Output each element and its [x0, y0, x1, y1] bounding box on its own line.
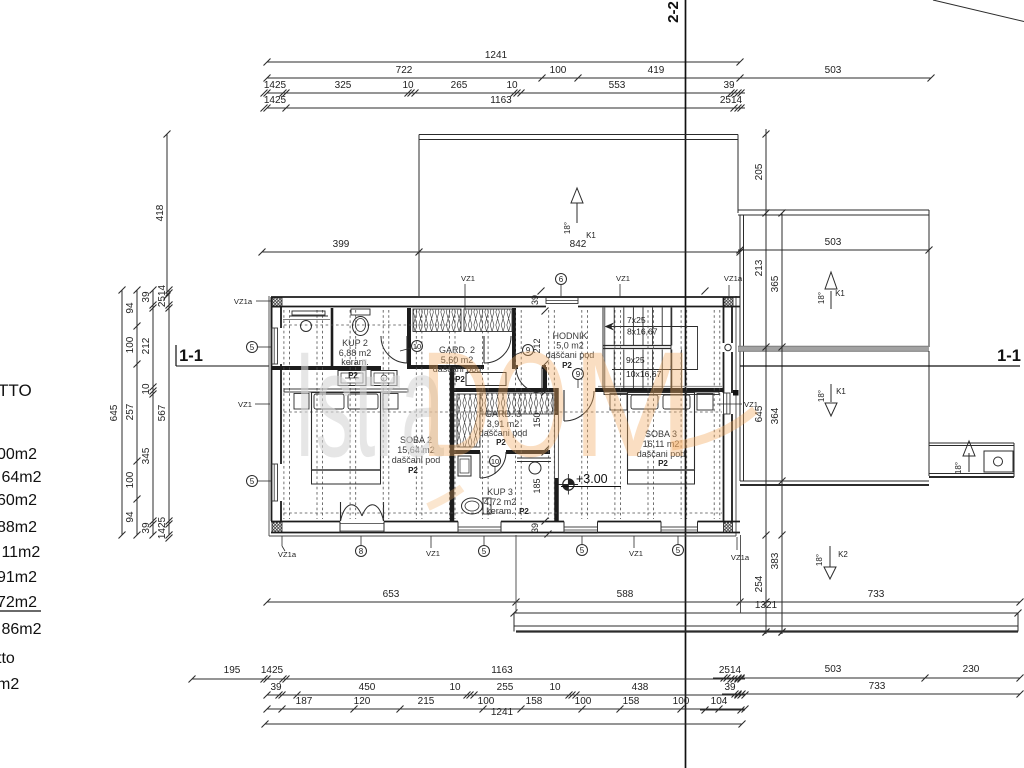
window jamb lines bottom wall	[339, 522, 341, 534]
soba2 nightstands	[294, 394, 309, 410]
canopy slope arrow 18 deg	[968, 453, 970, 472]
dimension line total 1241 (top)	[267, 61, 740, 63]
position bubble 5 left lower	[247, 476, 258, 487]
wall hodnik bottom + stub	[512, 365, 518, 369]
svg-text:10: 10	[402, 80, 414, 91]
dimension 399 / 842 under roof	[262, 251, 740, 253]
roof slope arrow K1 (upper roof)	[576, 203, 578, 223]
svg-text:18°: 18°	[815, 554, 824, 566]
stairs stringer	[602, 308, 604, 389]
diagonal roof line top right	[933, 0, 1024, 22]
svg-text:419: 419	[648, 65, 665, 76]
window bottom wall 1	[458, 527, 501, 533]
svg-text:VZ1a: VZ1a	[234, 297, 253, 306]
door pivot circle right wall	[725, 344, 731, 350]
svg-text:VZ1: VZ1	[461, 274, 475, 283]
svg-text:5: 5	[250, 477, 255, 486]
svg-text:10: 10	[506, 80, 518, 91]
svg-text:39: 39	[270, 682, 282, 693]
svg-text:P2: P2	[519, 507, 529, 516]
window left wall lower	[271, 464, 278, 501]
wall kup3 top	[454, 450, 480, 454]
dashed joist grid (vertical pairs)	[283, 310, 285, 519]
window right wall (VZ1)	[724, 393, 731, 414]
dimension line 722 / 100 / 419 / 503 (top)	[267, 77, 931, 79]
svg-text:60m2: 60m2	[0, 492, 37, 509]
gard2 dresser	[466, 373, 506, 386]
svg-text:M: M	[571, 320, 695, 488]
door hodnik to soba2 (tag 9)	[541, 368, 543, 393]
window left wall upper	[271, 328, 278, 364]
svg-text:2-2: 2-2	[665, 1, 682, 23]
svg-text:5: 5	[250, 343, 255, 352]
roof edge double vertical (right of plan)	[739, 215, 741, 481]
corner insulation hatch bottom-left	[272, 522, 282, 533]
soba3 bed body	[628, 393, 695, 471]
svg-text:230: 230	[963, 664, 980, 675]
svg-text:keram.: keram.	[486, 506, 514, 516]
soba3 nightstands	[610, 394, 627, 411]
svg-text:2514: 2514	[720, 95, 743, 106]
svg-text:,11m2: ,11m2	[0, 544, 40, 561]
sink unit in canopy	[984, 451, 1013, 472]
svg-text:383: 383	[770, 552, 781, 569]
svg-text:733: 733	[869, 681, 886, 692]
svg-text:503: 503	[825, 65, 842, 76]
wall kup2 bottom	[271, 366, 381, 370]
dimension line 39/733 (bottom right)	[722, 693, 1020, 695]
position bubble 9 gard2 door	[523, 345, 534, 356]
svg-text:100: 100	[575, 696, 592, 707]
extension line below plan (x=516)	[515, 535, 517, 613]
roof slope arrow K1 up (right upper)	[830, 291, 832, 309]
svg-text:O: O	[493, 320, 568, 488]
svg-text:10: 10	[141, 383, 152, 395]
wall kup2 inner partition	[331, 308, 334, 366]
wall gard2 bottom	[407, 365, 484, 369]
svg-text:6: 6	[559, 275, 564, 284]
dimension chain 645 (left)	[121, 290, 123, 535]
svg-text:215: 215	[418, 696, 435, 707]
svg-text:255: 255	[497, 682, 514, 693]
svg-text:5: 5	[676, 546, 681, 555]
wall ticks top near window	[538, 288, 545, 295]
position bubble 8 bottom (balcony door)	[356, 546, 367, 557]
roof slope arrow K1 down (right lower)	[830, 384, 832, 402]
svg-text:10: 10	[549, 682, 561, 693]
svg-text:503: 503	[825, 664, 842, 675]
stairs landing boundary	[670, 308, 672, 389]
svg-text:418: 418	[155, 204, 166, 221]
svg-text:438: 438	[632, 682, 649, 693]
svg-text:842: 842	[570, 239, 587, 250]
svg-text:m2: m2	[0, 676, 19, 693]
gard2 wardrobe hatch A	[413, 309, 461, 332]
svg-text:100: 100	[478, 696, 495, 707]
svg-text:205: 205	[754, 163, 765, 180]
stairs lower flight risers 9x25	[613, 350, 615, 389]
roof outline right lower rectangle	[928, 351, 930, 476]
position bubble 5 left upper	[247, 342, 258, 353]
svg-text:94: 94	[125, 302, 136, 314]
svg-text:100: 100	[125, 471, 136, 488]
stairs walk line with arrow	[607, 327, 698, 370]
svg-text:213: 213	[754, 259, 765, 276]
svg-text:39: 39	[530, 295, 540, 305]
dimension chain 39/212/10/345/39 (left)	[152, 290, 154, 535]
soba2 pillows	[314, 394, 344, 409]
canopy outline with sink (bottom right)	[929, 442, 1014, 444]
exterior wall right	[723, 297, 725, 343]
wall kup3/soba3 vertical	[554, 388, 559, 415]
svg-text:1241: 1241	[491, 707, 514, 718]
corner insulation hatch bottom-right	[724, 522, 733, 533]
position bubble 9 hodnik door	[573, 369, 584, 380]
underline under 72m2	[0, 610, 41, 612]
svg-text:1163: 1163	[491, 665, 513, 676]
kup2 counter and washbasin	[290, 315, 328, 317]
svg-text:2514: 2514	[157, 284, 168, 307]
kup2 toilet	[351, 309, 370, 315]
level mark +3.00	[563, 479, 574, 490]
svg-text:8: 8	[359, 547, 364, 556]
svg-text:257: 257	[125, 403, 136, 420]
svg-text:VZ1: VZ1	[629, 549, 643, 558]
svg-text:tto: tto	[0, 650, 15, 667]
svg-text:567: 567	[157, 404, 168, 421]
svg-text:KUP 3: KUP 3	[487, 487, 513, 497]
svg-text:195: 195	[224, 665, 241, 676]
stairs upper flight risers 7x25	[613, 308, 615, 346]
dimension chain right: 365/364/383	[781, 213, 783, 634]
svg-text:588: 588	[617, 589, 634, 600]
window VZ1 top wall (hodnik)	[546, 298, 578, 304]
svg-text:91m2: 91m2	[0, 569, 37, 586]
exterior wall bottom	[271, 532, 740, 534]
wall gard2/hodnik vertical	[512, 308, 516, 369]
svg-text:187: 187	[296, 696, 313, 707]
gard2 wardrobe hatch B	[464, 309, 512, 332]
svg-text:18°: 18°	[563, 222, 572, 234]
svg-text:K1: K1	[835, 289, 845, 298]
dashed lines horizontal	[284, 411, 722, 413]
dimension line 195/1425/1163/2514 (bottom)	[192, 678, 745, 680]
position bubble 5 bottom 1	[479, 546, 490, 557]
svg-text:365: 365	[770, 275, 781, 292]
svg-text:39: 39	[141, 522, 152, 534]
svg-text:VZ1a: VZ1a	[724, 274, 743, 283]
soba3 pillows	[631, 395, 658, 409]
roof outline right upper rectangle	[738, 209, 929, 211]
svg-text:,64m2: ,64m2	[0, 469, 42, 486]
svg-text:100: 100	[125, 336, 136, 353]
stairs railing between flights	[603, 345, 671, 347]
dimension line 1425 / 1163 / 2514 (top)	[267, 107, 745, 109]
svg-text:1425: 1425	[264, 95, 287, 106]
svg-text:K2: K2	[838, 550, 848, 559]
dimension line 187/120/215/100/158/100/158/100/104 (bottom)	[267, 708, 745, 710]
position bubble 5 bottom 3	[673, 545, 684, 556]
kup3 washbasin	[458, 456, 471, 476]
svg-text:5: 5	[580, 546, 585, 555]
svg-text:18°: 18°	[954, 462, 963, 474]
svg-text:325: 325	[335, 80, 352, 91]
svg-text:D: D	[421, 320, 491, 488]
svg-text:212: 212	[141, 337, 152, 354]
svg-text:104: 104	[711, 696, 728, 707]
door kup2 (tag 10)	[406, 336, 408, 363]
door gard2 (tag 9)	[483, 336, 485, 363]
section mark 1-1 left	[175, 345, 177, 366]
corner insulation hatch top-right	[724, 298, 734, 308]
svg-text:100: 100	[673, 696, 690, 707]
wall soba2 right vertical	[450, 366, 455, 521]
dimension line total 1241 (bottom)	[265, 723, 742, 725]
window bottom wall 3	[661, 527, 698, 533]
svg-text:653: 653	[383, 589, 400, 600]
extension line below plan (x=740)	[740, 535, 742, 613]
svg-text:94: 94	[125, 511, 136, 523]
svg-text:39: 39	[530, 523, 540, 533]
svg-text:VZ1: VZ1	[238, 400, 252, 409]
door soba3 (tag 5)	[563, 390, 565, 421]
wall section marker black square	[733, 390, 739, 396]
roof ridge grey band (right)	[738, 347, 929, 352]
exterior wall top	[271, 296, 740, 298]
svg-text:1425: 1425	[157, 516, 168, 539]
svg-text:158: 158	[526, 696, 543, 707]
dimension line 39/450/10/255/10/438/39 (bottom)	[267, 694, 745, 696]
wall gard3 top	[450, 388, 556, 392]
svg-text:503: 503	[825, 237, 842, 248]
soba2 bed body	[312, 393, 381, 471]
svg-text:K1: K1	[586, 231, 596, 240]
svg-text:1241: 1241	[485, 50, 508, 61]
gard3 wardrobe hatch left strip	[457, 394, 480, 447]
svg-text:18°: 18°	[817, 390, 826, 402]
dimension 418 (left upper)	[166, 134, 168, 296]
svg-text:265: 265	[451, 80, 468, 91]
svg-text:364: 364	[770, 407, 781, 424]
svg-text:39: 39	[724, 682, 736, 693]
svg-text:1425: 1425	[264, 80, 287, 91]
svg-text:1-1: 1-1	[179, 347, 203, 365]
svg-text:,86m2: ,86m2	[0, 621, 42, 638]
watermark IstraDOM	[294, 320, 695, 488]
soba3 bed headboard	[604, 392, 719, 395]
svg-text:72m2: 72m2	[0, 594, 37, 611]
watermark orange swoosh	[672, 410, 755, 446]
svg-text:VZ1a: VZ1a	[278, 550, 297, 559]
dimension line 1425/325/10/265/10/553/39 (top)	[267, 92, 745, 94]
roof outline upper rectangle	[419, 134, 738, 136]
dimension line 104 (bottom right)	[700, 709, 745, 711]
gard3 wardrobe hatch top block	[480, 393, 553, 414]
svg-text:39: 39	[723, 80, 735, 91]
svg-text:18°: 18°	[817, 292, 826, 304]
exterior wall left	[271, 297, 273, 521]
svg-text:K1: K1	[836, 387, 846, 396]
svg-text:645: 645	[109, 404, 120, 421]
svg-text:VZ1: VZ1	[616, 274, 630, 283]
svg-text:345: 345	[141, 447, 152, 464]
svg-text:1321: 1321	[755, 600, 778, 611]
balcony door double leaf (soba 2)	[340, 523, 384, 525]
dimension chain 94/100/257/100/94 (left)	[136, 290, 138, 535]
wall kup2/gard2 vertical	[407, 308, 411, 369]
section mark 1-1 right and section trace	[740, 365, 1020, 367]
wall soba3 top	[595, 388, 723, 392]
svg-text:722: 722	[396, 65, 413, 76]
svg-text:120: 120	[354, 696, 371, 707]
soba2 bed headboard	[284, 389, 408, 392]
roof slope arrow K2 down (below plan right)	[829, 546, 831, 567]
position bubble 10 kup2 door	[412, 341, 423, 352]
svg-text:254: 254	[754, 575, 765, 592]
svg-text:5: 5	[482, 547, 487, 556]
svg-text:553: 553	[609, 80, 626, 91]
svg-text:VZ1a: VZ1a	[731, 553, 750, 562]
door kup3 (tag 10)	[479, 452, 481, 478]
svg-text:100: 100	[550, 65, 567, 76]
window bottom wall 2	[564, 527, 598, 533]
tick marks at balcony bottom	[763, 629, 770, 636]
section line 2-2 vertical	[685, 0, 687, 768]
position bubble 10 kup3 door	[490, 456, 501, 467]
svg-text:39: 39	[141, 291, 152, 303]
svg-text:399: 399	[333, 239, 350, 250]
balcony slab outline with dim 1321	[514, 612, 1018, 614]
svg-text:10: 10	[449, 682, 461, 693]
kup2 washer boxes	[338, 371, 366, 386]
svg-text:1-1: 1-1	[997, 347, 1021, 365]
dimension 503 (right mid)	[738, 249, 929, 251]
position bubble 6 top	[556, 274, 567, 285]
dimension chain right: 205/213/645/254	[765, 129, 767, 634]
dimension chain 2514/567/1425 (left)	[168, 290, 170, 535]
svg-text:158: 158	[623, 696, 640, 707]
svg-text:88m2: 88m2	[0, 519, 37, 536]
svg-text:1425: 1425	[261, 665, 284, 676]
svg-text:1163: 1163	[490, 95, 512, 106]
dimension 653 / 588 / 733 (below plan)	[267, 601, 740, 603]
kup3 toilet	[483, 498, 491, 514]
svg-text:VZ1: VZ1	[426, 549, 440, 558]
svg-text:450: 450	[359, 682, 376, 693]
dimension line 2514/503/230 (bottom right)	[713, 677, 1020, 679]
corner insulation hatch top-left	[272, 298, 282, 308]
svg-text:TTO: TTO	[0, 381, 32, 400]
plan outer plaster line	[268, 296, 270, 536]
svg-text:00m2: 00m2	[0, 446, 37, 463]
position bubble 5 bottom 2	[577, 545, 588, 556]
svg-text:733: 733	[868, 589, 885, 600]
